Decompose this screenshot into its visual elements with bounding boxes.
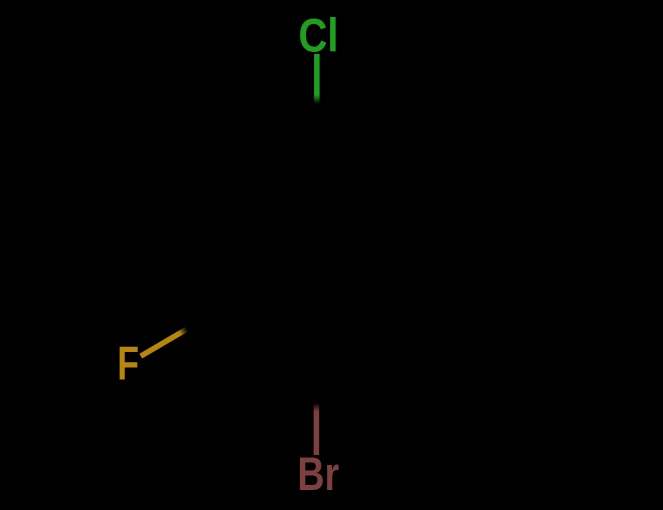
- bond C4-Br (dark red half): [314, 403, 320, 455]
- atom label Cl: [298, 11, 338, 63]
- atom label F: [117, 337, 139, 390]
- svg-text:Cl: Cl: [298, 11, 338, 63]
- atom label Br: [297, 448, 339, 501]
- bond C1-Cl (green half): [314, 54, 320, 104]
- svg-text:Br: Br: [297, 448, 339, 501]
- benzene ring (black bonds, invisible on black background): [222, 145, 413, 365]
- bond C3-F (goldenrod half): [141, 329, 187, 356]
- svg-text:F: F: [117, 337, 139, 390]
